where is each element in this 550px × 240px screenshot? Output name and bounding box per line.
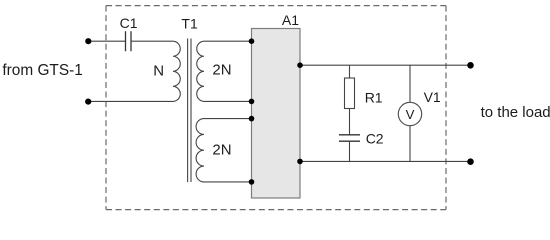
wire C1 to transformer — [131, 40, 173, 42]
node A1 pin 1 — [249, 38, 255, 44]
wire input top — [88, 40, 125, 42]
svg-text:R1: R1 — [365, 89, 383, 105]
svg-text:C1: C1 — [120, 15, 138, 31]
svg-text:T1: T1 — [181, 15, 198, 31]
svg-text:2N: 2N — [212, 141, 231, 158]
node output terminal bottom — [467, 158, 474, 165]
node A1 out top — [297, 62, 303, 68]
svg-text:A1: A1 — [282, 12, 299, 28]
svg-text:from GTS-1: from GTS-1 — [2, 62, 82, 79]
svg-text:N: N — [153, 62, 164, 79]
wire V1 branch top — [409, 65, 411, 102]
dashed enclosure box — [106, 6, 446, 210]
capacitor C2 — [339, 135, 360, 141]
node output terminal top — [467, 62, 474, 69]
wire secondary bottom lower — [204, 181, 252, 183]
wire output rail top — [300, 64, 471, 66]
node input terminal bottom — [85, 99, 91, 105]
capacitor C1 — [126, 31, 132, 51]
wire secondary top lower — [204, 100, 252, 102]
transformer T1 primary winding N — [173, 41, 180, 101]
wire V1 branch bottom — [409, 126, 411, 162]
wire output rail bottom — [300, 160, 471, 162]
node A1 pin 3 — [249, 116, 255, 122]
wire input bottom — [88, 100, 173, 102]
transformer T1 secondary winding top 2N — [197, 41, 204, 101]
wire R1 branch top — [349, 65, 351, 78]
resistor R1 — [345, 78, 355, 109]
wire C2 branch bottom — [349, 141, 351, 161]
block A1 — [252, 29, 301, 199]
svg-text:C2: C2 — [366, 130, 384, 146]
svg-text:V: V — [406, 107, 415, 122]
svg-text:V1: V1 — [424, 89, 441, 105]
node A1 pin 2 — [249, 99, 255, 105]
node A1 pin 4 — [249, 179, 255, 185]
transformer T1 core — [188, 39, 191, 183]
node input terminal top — [85, 38, 91, 44]
wire secondary top upper — [204, 40, 252, 42]
svg-text:to the load: to the load — [481, 104, 550, 121]
voltmeter V1 — [398, 102, 421, 125]
wire R1 to C2 — [349, 109, 351, 135]
wire secondary bottom upper — [204, 118, 252, 120]
node A1 out bottom — [297, 159, 303, 165]
transformer T1 secondary winding bottom 2N — [196, 119, 204, 182]
svg-text:2N: 2N — [212, 62, 231, 79]
